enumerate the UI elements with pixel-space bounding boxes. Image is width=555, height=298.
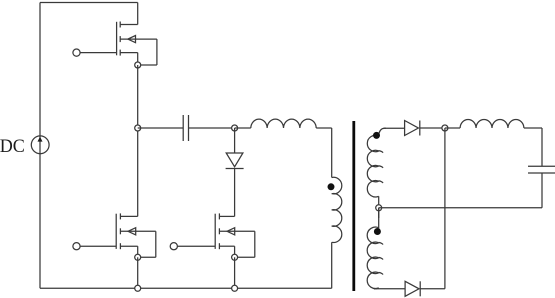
wire C1 to node B <box>189 127 235 129</box>
transistor Q3 gate terminal <box>170 243 215 250</box>
node N1 rectifier output <box>442 125 448 131</box>
wire left rail vertical <box>39 3 41 289</box>
capacitor C1 <box>183 115 188 141</box>
wire secondary top to center tap <box>378 196 380 208</box>
diode D2 <box>405 281 420 296</box>
wire C2 to return <box>541 173 543 208</box>
wire node A to capacitor C1 <box>138 127 184 129</box>
DC source V1 label <box>0 136 25 158</box>
node Q3 source-body junction <box>232 254 238 260</box>
wire secondary top to D1 <box>384 127 405 129</box>
transistor Q1 gate terminal <box>73 49 117 56</box>
inductor L2 <box>460 120 524 128</box>
wire Q1 drain to top rail <box>137 3 139 25</box>
polarity dot secondary bottom <box>374 228 381 235</box>
node center tap <box>376 205 382 211</box>
node Q2 source-body junction <box>135 254 141 260</box>
wire N1 to inductor L2 <box>445 127 460 129</box>
wire D2 to N1 riser <box>420 128 445 289</box>
wire node B to diode D3 <box>234 128 236 153</box>
wire output return to center tap <box>379 207 542 209</box>
wire secondary top terminal <box>384 127 387 129</box>
polarity dot primary <box>328 183 335 190</box>
DC source V1 <box>31 136 49 154</box>
transformer secondary winding bottom <box>367 208 383 289</box>
svg-text:DC: DC <box>0 136 25 158</box>
diode D3 <box>226 153 244 169</box>
transistor Q2 gate terminal <box>73 243 116 250</box>
transistor Q2 <box>116 213 156 257</box>
capacitor C2 <box>528 166 555 173</box>
wire top rail <box>40 2 138 4</box>
transformer secondary winding top <box>367 128 383 197</box>
node A half-bridge midpoint <box>135 125 141 131</box>
node Q1 source-body junction <box>135 62 141 68</box>
wire D1 to node N1 <box>420 127 445 129</box>
inductor L1 <box>251 119 316 128</box>
node bus A bottom rail junction <box>135 285 141 291</box>
wire Q2 source to bottom rail <box>137 257 139 288</box>
wire primary bottom to bottom rail <box>331 242 333 288</box>
node Q3 bottom rail junction <box>232 285 238 291</box>
transformer core <box>352 121 355 291</box>
wire Q3 source to bottom rail <box>234 257 236 288</box>
wire secondary bottom to D2 <box>376 288 406 290</box>
wire bus A midpoint <box>137 65 139 216</box>
transformer primary winding T1 <box>332 177 342 242</box>
polarity dot secondary top <box>373 132 380 139</box>
transistor Q3 <box>215 213 255 257</box>
wire D3 to Q3 drain <box>234 169 236 217</box>
wire center tap to secondary bottom <box>378 208 380 218</box>
wire L2 to output capacitor <box>524 128 542 166</box>
transistor Q1 <box>117 22 157 66</box>
node B <box>232 125 238 131</box>
wire node B to inductor L1 <box>235 127 251 129</box>
diode D1 <box>405 121 420 136</box>
wire bottom rail (primary) <box>40 287 332 289</box>
wire L1 to transformer primary <box>316 128 332 178</box>
